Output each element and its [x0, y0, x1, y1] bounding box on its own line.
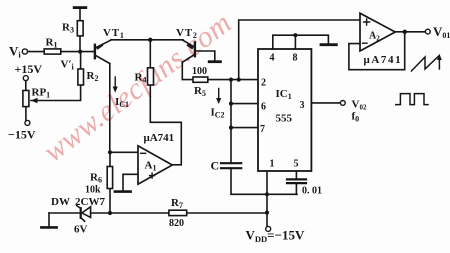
- svg-text:μA741: μA741: [364, 54, 403, 66]
- svg-text:R7: R7: [171, 197, 183, 210]
- svg-text:4: 4: [270, 53, 275, 64]
- svg-text:Vi: Vi: [9, 44, 21, 60]
- svg-text:V01: V01: [433, 24, 450, 40]
- svg-text:10k: 10k: [85, 185, 101, 196]
- svg-text:μA741: μA741: [144, 132, 175, 144]
- svg-text:−15V: −15V: [8, 128, 36, 142]
- svg-text:R2: R2: [87, 70, 99, 83]
- svg-text:C: C: [211, 159, 220, 173]
- svg-text:DW: DW: [51, 196, 70, 208]
- svg-text:V′i: V′i: [61, 59, 75, 72]
- svg-text:f0: f0: [352, 111, 360, 124]
- svg-text:VT1: VT1: [103, 27, 125, 40]
- svg-text:8: 8: [293, 53, 298, 64]
- svg-text:100: 100: [192, 66, 207, 77]
- svg-text:6: 6: [261, 102, 266, 113]
- svg-text:555: 555: [276, 113, 293, 125]
- svg-text:RP1: RP1: [32, 87, 51, 100]
- svg-text:IC2: IC2: [211, 107, 225, 120]
- svg-text:R3: R3: [62, 22, 74, 35]
- svg-text:6V: 6V: [74, 224, 88, 236]
- svg-text:820: 820: [169, 218, 184, 229]
- svg-text:+15V: +15V: [15, 62, 43, 76]
- svg-text:1: 1: [270, 159, 275, 170]
- svg-text:R1: R1: [46, 37, 58, 50]
- svg-text:7: 7: [260, 124, 265, 135]
- svg-text:VDD=−15V: VDD=−15V: [246, 228, 305, 245]
- svg-text:0. 01: 0. 01: [302, 186, 322, 197]
- svg-text:5: 5: [294, 159, 299, 170]
- svg-text:2CW7: 2CW7: [75, 196, 105, 208]
- svg-text:3: 3: [300, 100, 305, 111]
- svg-text:R5: R5: [194, 85, 206, 98]
- svg-text:2: 2: [261, 78, 266, 89]
- svg-text:R6: R6: [90, 172, 102, 185]
